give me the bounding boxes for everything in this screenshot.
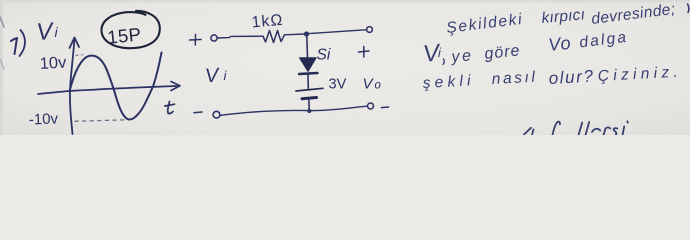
output - sign: [382, 106, 389, 109]
svg-text:olur?: olur?: [548, 67, 595, 88]
output + sign: [359, 47, 370, 58]
wire: node A to output terminal: [309, 30, 366, 34]
output label Vo: [363, 76, 382, 93]
svg-text:nasıl: nasıl: [491, 69, 538, 88]
svg-text:Vo: Vo: [547, 33, 572, 55]
output terminal (bottom right): [368, 103, 374, 109]
svg-text:ye: ye: [450, 47, 474, 66]
junction blob bottom: [307, 109, 311, 113]
svg-text:1kΩ: 1kΩ: [251, 12, 284, 32]
node A junction dot: [304, 31, 309, 36]
graph label 10v: [39, 54, 67, 73]
y-axis arrowhead: [70, 38, 80, 49]
graph y-axis: [70, 38, 75, 134]
svg-text:10v: 10v: [39, 54, 67, 73]
wire: resistor to node A: [285, 33, 306, 36]
graph label Vi: [36, 18, 59, 46]
bottom rail wire: [221, 106, 367, 115]
page edge mark mid-left: [0, 59, 4, 69]
sine wave Vi(t): [70, 53, 162, 120]
question number 1): [11, 30, 25, 56]
handwritten question line 2: Vi ye gore Vo dalga: [422, 29, 629, 68]
diode D1 cathode bar: [299, 73, 318, 74]
input terminal (top left): [211, 35, 217, 41]
graph x-axis: [38, 86, 177, 94]
svg-text:3V: 3V: [329, 77, 347, 93]
input - sign: [194, 111, 202, 114]
semicolon fleck top right corner: [688, 4, 689, 13]
resistor 1kOhm zigzag: [263, 31, 285, 43]
paper background: [0, 0, 690, 135]
svg-text:-10v: -10v: [29, 110, 59, 128]
battery 3V long plate: [296, 88, 323, 91]
wire: battery down to bottom rail: [308, 100, 311, 112]
page edge mark top-left: [0, 17, 4, 27]
cut-off text at bottom edge: [524, 121, 628, 135]
input + sign (top left): [190, 35, 202, 46]
input terminal (bottom left): [213, 111, 220, 118]
svg-text:şekli: şekli: [422, 72, 475, 92]
source label Vi: [204, 64, 227, 87]
battery 3V short plate: [302, 98, 317, 99]
handwritten question line 3: sekli nasil olur? Ciziniz.: [422, 64, 682, 92]
points badge: ellipse around 15P: [101, 11, 159, 48]
faint tick at +10 level: [76, 54, 84, 57]
x-axis arrowhead: [171, 82, 180, 91]
graph label t: [165, 102, 175, 114]
wire: node A down to diode: [306, 36, 309, 58]
svg-text:o: o: [375, 80, 382, 92]
output terminal (top right): [367, 27, 373, 33]
handwritten question line 1: Sekildeki kirpici devresinde;: [445, 1, 676, 37]
svg-text:15P: 15P: [106, 23, 142, 47]
wire: left terminal to resistor: [217, 36, 263, 38]
wire: diode to battery: [307, 75, 309, 89]
diode D1 triangle (anode): [300, 58, 317, 72]
-10v dashed level line: [75, 120, 126, 122]
svg-text:Si: Si: [317, 47, 331, 64]
